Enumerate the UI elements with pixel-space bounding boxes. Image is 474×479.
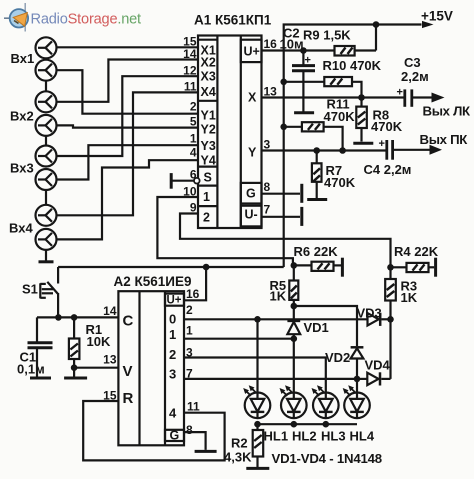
svg-text:13: 13 <box>264 85 278 99</box>
label R1 10K <box>87 334 111 349</box>
svg-text:HL4: HL4 <box>350 429 375 444</box>
wire A1 pin9 select B <box>180 214 391 280</box>
svg-text:470K: 470K <box>324 175 356 190</box>
label 10м <box>280 37 304 52</box>
node R3 R4 junction <box>387 264 394 271</box>
LED cathode bus <box>254 421 357 428</box>
svg-text:16: 16 <box>264 37 278 51</box>
svg-text:1: 1 <box>190 132 197 146</box>
svg-text:2: 2 <box>186 303 193 317</box>
ground R7 <box>307 198 327 201</box>
svg-text:G: G <box>170 429 180 443</box>
svg-text:10K: 10K <box>87 334 111 349</box>
svg-text:8: 8 <box>186 423 193 437</box>
label R4 22K <box>394 244 439 259</box>
svg-text:X3: X3 <box>201 70 216 84</box>
svg-text:Вх3: Вх3 <box>10 161 34 176</box>
svg-text:4: 4 <box>169 406 177 421</box>
svg-text:VD1: VD1 <box>304 320 329 335</box>
capacitor C4 <box>379 138 430 160</box>
label R8 470K <box>371 119 403 134</box>
wire Bx3b to Y3 <box>57 145 199 179</box>
svg-text:VD2: VD2 <box>325 350 350 365</box>
svg-text:1K: 1K <box>401 290 418 305</box>
svg-text:1K: 1K <box>270 289 287 304</box>
svg-text:VD1-VD4 - 1N4148: VD1-VD4 - 1N4148 <box>272 451 382 466</box>
wire A2 out1 pin1 <box>184 335 297 342</box>
capacitor C1 <box>28 317 53 376</box>
connector Bx socket 2 <box>36 60 57 81</box>
svg-text:Y4: Y4 <box>201 154 216 168</box>
wire Bx2b to Y2 <box>57 125 199 127</box>
svg-text:R4 22K: R4 22K <box>394 244 439 259</box>
resistor R2 <box>253 424 264 467</box>
wire Y output pin3 <box>262 147 387 154</box>
wire A1 pin10 select A <box>157 197 293 265</box>
svg-text:2: 2 <box>203 211 210 225</box>
svg-text:0: 0 <box>169 312 176 327</box>
ground A1 G <box>300 184 303 203</box>
A2 G box <box>165 429 184 443</box>
wire R5 bottom to VD2 <box>294 306 357 346</box>
connector Bx socket 3 <box>36 91 57 112</box>
svg-text:470K: 470K <box>371 119 403 134</box>
svg-text:VD4: VD4 <box>365 358 391 373</box>
resistor R8 <box>356 98 367 142</box>
label C1 <box>20 350 37 365</box>
label R7 <box>326 163 343 178</box>
connector Bx socket 8 <box>36 229 57 250</box>
label Вых ЛК <box>423 104 472 119</box>
A1 title <box>194 13 272 28</box>
wire A2 G pin8 <box>184 432 206 450</box>
svg-text:5: 5 <box>190 115 197 129</box>
svg-text:U-: U- <box>245 208 258 222</box>
A1 X label <box>248 91 257 105</box>
resistor R11 <box>284 122 343 150</box>
svg-text:2,2м: 2,2м <box>401 69 429 84</box>
wire Bx1b to Y1 <box>57 70 199 114</box>
svg-text:Вых ЛК: Вых ЛК <box>423 104 472 119</box>
ground input chain <box>39 260 54 263</box>
svg-text:8: 8 <box>264 180 271 194</box>
counter A2 chip body K561IE9 <box>118 291 184 445</box>
resistor R7 <box>312 151 322 199</box>
ground A2 G <box>195 450 217 453</box>
label Вых ПК <box>420 132 469 147</box>
resistor R4 <box>391 263 435 272</box>
svg-text:14: 14 <box>103 304 117 318</box>
label R5 <box>270 278 287 293</box>
A2 C label <box>123 313 134 330</box>
A2 left pin numbers <box>103 304 117 403</box>
svg-text:0,1м: 0,1м <box>17 362 45 377</box>
junction R10 on +15V <box>280 79 287 86</box>
A1 G box <box>241 183 262 204</box>
resistor R10 <box>284 77 362 98</box>
connector Bx socket 1 <box>36 37 57 58</box>
label VD4 <box>365 358 391 373</box>
A2 right pin numbers <box>186 287 200 437</box>
label R3 1K <box>401 290 418 305</box>
diode VD4 <box>357 372 391 385</box>
A1 left pin labels <box>201 43 216 224</box>
wire HL2 riser <box>293 339 295 393</box>
svg-text:1: 1 <box>169 327 176 342</box>
label R9 1,5K <box>303 28 351 43</box>
svg-text:4: 4 <box>190 146 197 160</box>
svg-text:+: + <box>397 87 403 99</box>
label C2 <box>283 26 300 41</box>
wire A1 pin16 to R9 <box>262 47 335 54</box>
label C3 <box>404 55 421 70</box>
ground C2 <box>294 111 314 114</box>
labels HL1-HL4 <box>264 429 375 444</box>
wire Bx3a to X3 <box>57 76 199 156</box>
svg-text:Y3: Y3 <box>201 139 216 153</box>
A2 title <box>114 274 192 289</box>
label VD3 <box>357 306 382 321</box>
wire A2 out0 pin2 <box>184 316 394 323</box>
wire R3 to VD4 cathode <box>389 320 391 379</box>
LED HL2 <box>280 385 307 418</box>
label R10 470K <box>323 58 382 73</box>
svg-text:2: 2 <box>169 347 176 362</box>
capacitor C3 <box>397 87 432 107</box>
LED HL1 <box>243 385 270 418</box>
wire +15V to S1 and A2 <box>58 264 284 271</box>
arrow out PK <box>430 145 443 155</box>
svg-text:Вх2: Вх2 <box>10 109 34 124</box>
connector Bx socket 6 <box>36 169 57 190</box>
label R8 <box>373 108 390 123</box>
A1 S inversion circle <box>194 178 200 184</box>
svg-text:S1: S1 <box>22 282 38 297</box>
diode VD1 <box>287 306 300 339</box>
svg-text:A2 К561ИЕ9: A2 К561ИЕ9 <box>114 274 192 289</box>
svg-text:Y: Y <box>248 146 257 160</box>
wire A2 out2 pin3 <box>184 358 326 393</box>
connector Bx socket 5 <box>36 146 57 167</box>
A2 output labels <box>169 312 177 421</box>
svg-text:Вх4: Вх4 <box>9 221 33 236</box>
svg-text:Вых ПК: Вых ПК <box>420 132 469 147</box>
svg-text:C3: C3 <box>404 55 421 70</box>
ground R4 <box>434 258 437 277</box>
svg-text:7: 7 <box>186 367 193 381</box>
svg-text:Y2: Y2 <box>201 123 216 137</box>
svg-text:11: 11 <box>187 400 200 414</box>
svg-text:4,3K: 4,3K <box>224 450 252 465</box>
svg-text:R9 1,5K: R9 1,5K <box>303 28 351 43</box>
label R2 4,3K <box>224 450 252 465</box>
label R1 <box>86 322 103 337</box>
resistor R3 <box>385 279 396 320</box>
svg-text:13: 13 <box>103 353 117 367</box>
wire X output pin13 <box>262 94 405 101</box>
svg-text:7: 7 <box>264 203 271 217</box>
wire S pin stub <box>171 180 194 182</box>
connector Bx socket 7 <box>36 205 57 226</box>
wire Bx4a to X4 <box>57 92 198 215</box>
label R11 <box>327 97 350 112</box>
ground R8 <box>353 142 373 145</box>
junction R11 on +15V <box>280 124 287 131</box>
diode VD3 <box>368 313 391 326</box>
ground S pin <box>170 173 173 189</box>
label R11 470K <box>324 109 356 124</box>
wire HL1 riser <box>256 319 258 392</box>
label Bx1 <box>11 51 35 66</box>
label VD1 <box>304 320 329 335</box>
svg-text:X: X <box>248 91 257 105</box>
svg-text:U+: U+ <box>244 45 260 59</box>
node R5 bottom junction <box>291 303 298 310</box>
wire Bx4b to Y4 <box>57 160 198 239</box>
svg-text:V: V <box>123 363 133 380</box>
switch S1 <box>40 267 58 317</box>
wire A2 reset loop pin11 to R <box>83 401 224 460</box>
A2 U+ box <box>165 294 184 307</box>
label Bx3 <box>10 161 34 176</box>
svg-text:1: 1 <box>186 324 193 338</box>
label C3 2,2м <box>401 69 429 84</box>
svg-text:VD3: VD3 <box>357 306 382 321</box>
A1 U+ box <box>241 40 262 62</box>
connector chain wires <box>45 81 47 261</box>
label R5 1K <box>270 289 287 304</box>
A1 U- box <box>241 206 262 227</box>
svg-text:A1 К561КП1: A1 К561КП1 <box>194 13 272 28</box>
svg-text:R: R <box>123 390 134 407</box>
label VD2 <box>325 350 350 365</box>
svg-text:G: G <box>246 187 256 201</box>
LED HL3 <box>312 385 339 418</box>
wire A2 pin16 riser <box>184 267 206 300</box>
svg-text:C: C <box>123 313 134 330</box>
wire C input line <box>37 314 118 321</box>
svg-text:HL3: HL3 <box>321 429 346 444</box>
svg-text:S: S <box>204 171 212 185</box>
site logo icon <box>4 3 28 32</box>
label C1 0,1м <box>17 362 45 377</box>
wire V input line <box>74 367 118 369</box>
svg-text:HL2: HL2 <box>292 429 317 444</box>
label C4 2,2м <box>364 162 412 177</box>
svg-text:+: + <box>379 138 385 150</box>
LED HL4 <box>343 385 370 418</box>
label VD1-VD4 1N4148 <box>272 451 382 466</box>
A1 right pin numbers <box>264 37 278 217</box>
+15V arrow <box>422 21 434 28</box>
label +15V <box>421 9 453 24</box>
node R5 R6 junction <box>291 262 298 269</box>
svg-text:U+: U+ <box>167 295 182 307</box>
svg-text:2: 2 <box>190 100 197 114</box>
svg-text:C4 2,2м: C4 2,2м <box>364 162 412 177</box>
capacitor C2 <box>292 51 315 113</box>
label R6 22K <box>294 244 339 259</box>
svg-text:Вх1: Вх1 <box>11 51 35 66</box>
svg-text:RadioStorage.net: RadioStorage.net <box>31 12 142 28</box>
label R3 <box>401 279 418 294</box>
A1 left pin numbers <box>183 35 197 215</box>
svg-text:470K: 470K <box>324 109 356 124</box>
ground R6 <box>341 258 344 277</box>
A1 Y label <box>248 146 257 160</box>
svg-text:R2: R2 <box>231 436 248 451</box>
A2 R label <box>123 390 134 407</box>
resistor R1 <box>69 317 80 376</box>
ground R2 <box>246 467 269 470</box>
wire Bx1a to X1 <box>57 46 199 48</box>
svg-text:X2: X2 <box>201 55 216 69</box>
svg-text:3: 3 <box>186 346 193 360</box>
site logo text RadioStorage.net <box>31 12 142 28</box>
resistor R5 <box>289 265 298 306</box>
A2 V label <box>123 363 133 380</box>
connector Bx socket 4 <box>36 115 57 136</box>
wire HL4 riser <box>356 379 358 392</box>
ground A1 U- <box>300 207 303 226</box>
label Bx2 <box>10 109 34 124</box>
svg-text:+15V: +15V <box>421 9 453 24</box>
svg-text:16: 16 <box>186 287 200 301</box>
label R7 470K <box>324 175 356 190</box>
svg-text:3: 3 <box>169 367 176 382</box>
wire A1 pin8 G <box>262 193 301 195</box>
ground R1 <box>64 377 87 380</box>
op-amp U1 A1 chip body K561KP1 <box>198 36 262 229</box>
svg-text:1: 1 <box>203 190 210 204</box>
ground C1 <box>30 377 51 380</box>
label Bx4 <box>9 221 33 236</box>
wire A1 pin7 U- <box>262 216 301 218</box>
wire Bx2a to X2 <box>57 60 199 102</box>
diode VD2 <box>351 347 364 379</box>
svg-text:HL1: HL1 <box>264 429 289 444</box>
svg-text:R10 470K: R10 470K <box>323 58 382 73</box>
arrow out LK <box>432 93 445 103</box>
+15V power rail <box>284 21 422 267</box>
svg-text:X4: X4 <box>201 85 216 99</box>
svg-text:R6 22K: R6 22K <box>294 244 339 259</box>
resistor R9 <box>335 46 377 56</box>
svg-text:+: + <box>305 55 311 67</box>
svg-text:Y1: Y1 <box>201 109 216 123</box>
wire A2 out3 pin7 <box>184 376 360 383</box>
label R2 <box>231 436 248 451</box>
svg-text:10м: 10м <box>280 37 304 52</box>
resistor R6 <box>294 262 341 271</box>
svg-text:3: 3 <box>264 138 271 152</box>
label S1 <box>22 282 38 297</box>
